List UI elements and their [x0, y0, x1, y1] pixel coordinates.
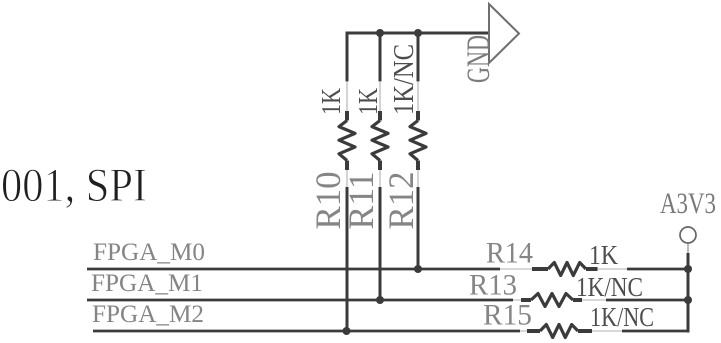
wire v3 bottom (R12 pin2 to FPGA_M0) — [417, 187, 420, 269]
wire FPGA_M0 left segment — [87, 268, 500, 271]
svg-text:A3V3: A3V3 — [660, 187, 716, 220]
svg-text:1K/NC: 1K/NC — [590, 302, 654, 332]
svg-text:FPGA_M0: FPGA_M0 — [93, 239, 205, 266]
svg-text:1K: 1K — [589, 240, 618, 270]
wire A3V3 pin lead — [687, 244, 689, 254]
svg-text:1K/NC: 1K/NC — [576, 272, 643, 302]
wire FPGA_M1 left segment — [87, 299, 513, 302]
wire A3V3 vertical — [687, 253, 690, 333]
junction FPGA_M0-v3 — [414, 265, 422, 273]
resistor R10 (vertical) — [339, 81, 355, 188]
junction FPGA_M0-A3V3 — [684, 265, 692, 273]
svg-text:GND: GND — [461, 35, 497, 83]
resistor R11 (vertical) — [372, 81, 388, 188]
svg-text:FPGA_M2: FPGA_M2 — [92, 301, 204, 328]
junction bus-R12 — [414, 29, 422, 37]
power A3V3 symbol (circle) — [680, 227, 696, 243]
junction FPGA_M1-A3V3 — [684, 296, 692, 304]
svg-text:R13: R13 — [469, 269, 517, 302]
svg-text:FPGA_M1: FPGA_M1 — [91, 270, 203, 297]
junction FPGA_M2-v1 — [343, 327, 351, 335]
wire FPGA_M1 right segment — [606, 299, 690, 302]
wire GND bus (top horizontal) — [346, 32, 490, 35]
junction FPGA_M1-v2 — [376, 296, 384, 304]
wire v3 top (bus to R12 pin1) — [417, 33, 420, 82]
wire FPGA_M2 left segment — [93, 330, 520, 333]
junction bus-R11 — [376, 29, 384, 37]
wire v1 top (bus to R10 pin1) — [346, 33, 349, 82]
wire v2 top (bus to R11 pin1) — [379, 33, 382, 82]
svg-text:1K: 1K — [353, 88, 383, 115]
resistor R13 (horizontal, FPGA_M1) — [513, 294, 606, 307]
wire v1 bottom (R10 pin2 to FPGA_M2) — [346, 187, 349, 331]
resistor R15 (horizontal, FPGA_M2) — [520, 325, 622, 338]
svg-text:R14: R14 — [486, 237, 533, 270]
svg-text:R12: R12 — [381, 172, 421, 230]
wire FPGA_M0 right segment — [627, 268, 690, 271]
svg-text:1K: 1K — [316, 88, 346, 115]
resistor R12 (vertical) — [410, 81, 426, 188]
ground GND symbol (right-pointing triangle) — [489, 4, 519, 63]
svg-text:001, SPI: 001, SPI — [1, 159, 147, 212]
wire v2 bottom (R11 pin2 to FPGA_M1) — [379, 187, 382, 300]
wire FPGA_M2 right segment — [622, 330, 688, 333]
svg-text:R15: R15 — [483, 299, 532, 332]
resistor R14 (horizontal, FPGA_M0) — [500, 263, 627, 276]
svg-text:1K/NC: 1K/NC — [388, 44, 420, 115]
